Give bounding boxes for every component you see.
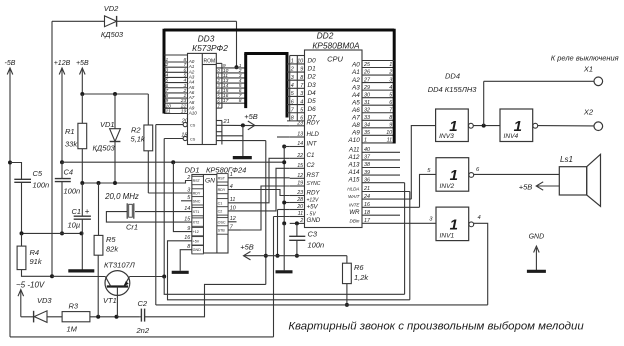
svg-text:INV3: INV3 bbox=[439, 133, 454, 140]
svg-text:11: 11 bbox=[387, 138, 393, 144]
svg-text:35: 35 bbox=[364, 130, 371, 136]
svg-text:A0: A0 bbox=[351, 62, 360, 69]
svg-text:100n: 100n bbox=[308, 241, 325, 250]
svg-text:A10: A10 bbox=[347, 137, 360, 144]
svg-text:3: 3 bbox=[187, 187, 190, 193]
svg-text:39: 39 bbox=[364, 170, 370, 176]
svg-text:VD1: VD1 bbox=[100, 120, 115, 129]
svg-text:INV2: INV2 bbox=[440, 183, 455, 190]
svg-text:+5V: +5V bbox=[307, 203, 319, 210]
svg-text:XT1: XT1 bbox=[193, 210, 200, 214]
svg-text:RDY: RDY bbox=[307, 189, 321, 196]
svg-text:DBin: DBin bbox=[350, 218, 360, 223]
svg-text:A2: A2 bbox=[351, 77, 360, 84]
svg-text:4: 4 bbox=[389, 85, 392, 91]
svg-text:3: 3 bbox=[166, 67, 169, 73]
svg-text:2: 2 bbox=[299, 218, 303, 224]
svg-text:16: 16 bbox=[364, 202, 370, 208]
svg-text:15: 15 bbox=[297, 163, 304, 169]
svg-text:18: 18 bbox=[364, 210, 370, 216]
svg-text:1M: 1M bbox=[67, 325, 78, 334]
svg-text:C3: C3 bbox=[308, 230, 318, 239]
svg-text:37: 37 bbox=[364, 155, 371, 161]
svg-text:A1: A1 bbox=[351, 69, 360, 76]
svg-text:22: 22 bbox=[180, 103, 187, 109]
svg-text:30: 30 bbox=[364, 92, 370, 98]
svg-text:D4: D4 bbox=[308, 90, 317, 97]
svg-text:R3: R3 bbox=[69, 302, 79, 311]
svg-text:+5В: +5В bbox=[244, 112, 258, 121]
svg-text:29: 29 bbox=[363, 85, 370, 91]
svg-text:+: + bbox=[85, 207, 90, 216]
svg-text:31: 31 bbox=[364, 100, 370, 106]
svg-text:КР580ГФ24: КР580ГФ24 bbox=[206, 166, 246, 175]
svg-text:10: 10 bbox=[230, 205, 236, 211]
svg-text:К реле выключения: К реле выключения bbox=[551, 54, 619, 63]
svg-text:5: 5 bbox=[166, 78, 169, 84]
svg-text:CS: CS bbox=[190, 138, 196, 142]
svg-text:13: 13 bbox=[297, 132, 303, 138]
svg-text:2: 2 bbox=[388, 70, 392, 76]
svg-text:1,2k: 1,2k bbox=[354, 273, 369, 282]
svg-text:CPU: CPU bbox=[327, 55, 343, 64]
svg-text:SNC: SNC bbox=[193, 199, 201, 203]
svg-text:RST: RST bbox=[218, 176, 226, 180]
svg-text:A10: A10 bbox=[188, 111, 198, 116]
svg-text:C1: C1 bbox=[72, 207, 82, 216]
svg-text:WR: WR bbox=[349, 209, 360, 216]
svg-text:D2: D2 bbox=[308, 74, 317, 81]
svg-text:3: 3 bbox=[389, 77, 392, 83]
svg-text:R4: R4 bbox=[30, 248, 40, 257]
svg-text:1: 1 bbox=[389, 62, 392, 68]
svg-text:23: 23 bbox=[180, 98, 187, 104]
svg-text:C2: C2 bbox=[307, 162, 315, 169]
svg-text:D0: D0 bbox=[308, 57, 317, 64]
svg-text:1: 1 bbox=[364, 138, 367, 144]
svg-text:1: 1 bbox=[230, 172, 233, 178]
svg-text:Квартирный звонок с произвольн: Квартирный звонок с произвольным выбором… bbox=[288, 321, 584, 333]
svg-text:7: 7 bbox=[183, 62, 186, 68]
svg-text:RDY: RDY bbox=[218, 188, 226, 192]
svg-text:RDY: RDY bbox=[193, 192, 201, 196]
svg-text:GN: GN bbox=[205, 178, 215, 185]
svg-text:27: 27 bbox=[363, 77, 371, 83]
svg-text:A13: A13 bbox=[347, 162, 360, 169]
svg-text:100n: 100n bbox=[64, 187, 81, 196]
svg-text:8: 8 bbox=[300, 75, 303, 81]
svg-text:2n2: 2n2 bbox=[136, 326, 150, 335]
svg-text:1: 1 bbox=[291, 59, 294, 65]
svg-text:2: 2 bbox=[182, 88, 186, 94]
svg-text:VD3: VD3 bbox=[37, 296, 52, 305]
svg-text:+5В: +5В bbox=[240, 243, 254, 252]
svg-text:11: 11 bbox=[298, 211, 304, 217]
svg-text:D1: D1 bbox=[308, 66, 317, 73]
svg-text:21: 21 bbox=[223, 119, 230, 125]
svg-text:Cr1: Cr1 bbox=[126, 222, 138, 231]
svg-text:A14: A14 bbox=[347, 169, 360, 176]
svg-text:10: 10 bbox=[386, 130, 392, 136]
svg-text:VT1: VT1 bbox=[103, 296, 117, 305]
svg-text:3: 3 bbox=[291, 75, 294, 81]
svg-text:19: 19 bbox=[181, 109, 187, 115]
svg-text:R5: R5 bbox=[106, 235, 116, 244]
svg-text:6: 6 bbox=[183, 67, 186, 73]
svg-text:3: 3 bbox=[183, 83, 186, 89]
svg-text:INT: INT bbox=[307, 140, 318, 147]
svg-text:КД503: КД503 bbox=[101, 30, 124, 39]
svg-text:RST: RST bbox=[193, 179, 201, 183]
svg-text:100n: 100n bbox=[33, 181, 50, 190]
svg-text:DD2: DD2 bbox=[317, 31, 334, 41]
svg-text:9: 9 bbox=[166, 98, 169, 104]
svg-text:36: 36 bbox=[364, 177, 370, 183]
svg-text:25: 25 bbox=[363, 62, 371, 68]
svg-text:2: 2 bbox=[186, 175, 190, 181]
svg-text:2: 2 bbox=[165, 62, 169, 68]
svg-text:17: 17 bbox=[223, 98, 229, 104]
svg-text:82k: 82k bbox=[106, 244, 119, 253]
svg-text:VD2: VD2 bbox=[104, 4, 119, 13]
svg-text:INV4: INV4 bbox=[504, 133, 519, 140]
svg-text:DD4: DD4 bbox=[445, 72, 460, 81]
svg-text:4: 4 bbox=[478, 215, 481, 221]
svg-text:C4: C4 bbox=[64, 168, 74, 177]
svg-text:К573РФ2: К573РФ2 bbox=[192, 43, 228, 53]
svg-text:8: 8 bbox=[291, 116, 294, 122]
svg-text:34: 34 bbox=[364, 123, 370, 129]
svg-text:A11: A11 bbox=[348, 146, 360, 153]
svg-text:A4: A4 bbox=[351, 92, 360, 99]
svg-text:+5В: +5В bbox=[76, 60, 89, 67]
svg-text:R2: R2 bbox=[131, 126, 141, 135]
svg-text:A3: A3 bbox=[351, 84, 360, 91]
svg-text:26: 26 bbox=[363, 70, 370, 76]
svg-text:22: 22 bbox=[296, 153, 303, 159]
svg-text:21: 21 bbox=[363, 186, 370, 192]
svg-text:GND: GND bbox=[307, 217, 321, 224]
svg-text:HLD: HLD bbox=[307, 131, 320, 138]
svg-text:9: 9 bbox=[300, 67, 303, 73]
svg-text:A15: A15 bbox=[347, 177, 360, 184]
svg-text:-5В: -5В bbox=[5, 60, 16, 67]
svg-text:5: 5 bbox=[183, 72, 186, 78]
svg-text:+12: +12 bbox=[193, 230, 199, 234]
svg-text:A9: A9 bbox=[351, 130, 360, 137]
svg-text:8: 8 bbox=[183, 57, 186, 63]
svg-text:4: 4 bbox=[183, 78, 186, 84]
svg-text:6: 6 bbox=[291, 99, 294, 105]
svg-text:C2: C2 bbox=[218, 209, 223, 213]
svg-text:12: 12 bbox=[297, 173, 303, 179]
svg-text:40: 40 bbox=[364, 147, 370, 153]
svg-text:8: 8 bbox=[166, 93, 169, 99]
svg-text:A5: A5 bbox=[351, 99, 360, 106]
svg-text:INTE: INTE bbox=[349, 202, 360, 207]
svg-text:RDY: RDY bbox=[307, 120, 321, 127]
svg-text:6: 6 bbox=[389, 100, 392, 106]
svg-text:~5 -10V: ~5 -10V bbox=[16, 281, 45, 290]
svg-text:INV1: INV1 bbox=[440, 232, 455, 239]
svg-text:20: 20 bbox=[296, 204, 303, 210]
svg-text:RST: RST bbox=[307, 172, 321, 179]
svg-text:D6: D6 bbox=[308, 106, 317, 113]
svg-text:20: 20 bbox=[181, 119, 189, 125]
svg-text:4: 4 bbox=[300, 99, 303, 105]
svg-text:ROM: ROM bbox=[203, 58, 215, 64]
svg-text:11: 11 bbox=[230, 197, 236, 203]
svg-text:C5: C5 bbox=[33, 169, 43, 178]
svg-text:10µ: 10µ bbox=[68, 221, 81, 230]
svg-text:R6: R6 bbox=[354, 263, 364, 272]
svg-text:19: 19 bbox=[297, 181, 303, 187]
svg-text:2: 2 bbox=[290, 67, 294, 73]
svg-text:C1: C1 bbox=[218, 201, 223, 205]
svg-text:3: 3 bbox=[300, 91, 303, 97]
svg-text:38: 38 bbox=[364, 162, 370, 168]
svg-text:10: 10 bbox=[297, 59, 303, 65]
svg-text:8: 8 bbox=[389, 115, 392, 121]
svg-text:КТ3107Л: КТ3107Л bbox=[104, 261, 136, 270]
svg-text:33k: 33k bbox=[65, 140, 78, 149]
svg-text:D5: D5 bbox=[308, 98, 317, 105]
svg-text:17: 17 bbox=[364, 218, 371, 224]
svg-text:WAIT: WAIT bbox=[348, 194, 361, 199]
svg-text:Ls1: Ls1 bbox=[560, 155, 573, 164]
svg-text:X2: X2 bbox=[583, 108, 594, 117]
svg-text:C2: C2 bbox=[138, 299, 148, 308]
svg-text:20,0 MHz: 20,0 MHz bbox=[104, 192, 139, 201]
svg-text:DD4 К155ЛН3: DD4 К155ЛН3 bbox=[428, 85, 478, 94]
svg-text:5,1k: 5,1k bbox=[131, 135, 146, 144]
svg-text:STB: STB bbox=[218, 229, 226, 233]
svg-text:A7: A7 bbox=[351, 114, 360, 121]
svg-text:A8: A8 bbox=[351, 122, 360, 129]
svg-text:CS: CS bbox=[190, 124, 196, 128]
svg-text:91k: 91k bbox=[30, 257, 43, 266]
svg-text:D3: D3 bbox=[308, 82, 317, 89]
svg-text:8: 8 bbox=[239, 98, 242, 104]
svg-text:24: 24 bbox=[363, 194, 370, 200]
svg-text:23: 23 bbox=[296, 190, 303, 196]
svg-text:7: 7 bbox=[166, 88, 169, 94]
svg-text:XT2: XT2 bbox=[193, 221, 200, 225]
svg-text:18: 18 bbox=[181, 132, 188, 138]
svg-text:КР580ВМ0А: КР580ВМ0А bbox=[312, 41, 360, 51]
svg-text:R1: R1 bbox=[65, 127, 75, 136]
svg-text:GND: GND bbox=[529, 234, 545, 241]
svg-text:11: 11 bbox=[166, 109, 171, 115]
svg-text:OSC: OSC bbox=[218, 220, 226, 224]
svg-text:4: 4 bbox=[230, 184, 233, 190]
svg-text:+5V: +5V bbox=[193, 239, 200, 243]
svg-text:GND: GND bbox=[193, 248, 202, 252]
svg-text:A12: A12 bbox=[347, 154, 360, 161]
svg-text:4: 4 bbox=[166, 72, 169, 78]
svg-text:HLDA: HLDA bbox=[347, 187, 359, 192]
svg-text:КД503: КД503 bbox=[93, 144, 116, 153]
svg-text:14: 14 bbox=[297, 141, 303, 147]
svg-text:1: 1 bbox=[450, 217, 458, 234]
svg-text:A6: A6 bbox=[351, 107, 360, 114]
svg-text:1: 1 bbox=[166, 57, 169, 63]
svg-text:1: 1 bbox=[183, 93, 186, 99]
svg-text:+5В: +5В bbox=[519, 183, 533, 192]
svg-text:4: 4 bbox=[291, 83, 294, 89]
svg-text:SYNC: SYNC bbox=[307, 181, 321, 187]
svg-text:+12В: +12В bbox=[54, 60, 71, 67]
svg-text:1: 1 bbox=[450, 167, 458, 184]
svg-text:10: 10 bbox=[166, 103, 172, 109]
svg-text:23: 23 bbox=[296, 121, 303, 127]
svg-text:9: 9 bbox=[389, 123, 392, 129]
svg-text:C1: C1 bbox=[307, 152, 315, 159]
svg-text:32: 32 bbox=[364, 107, 370, 113]
svg-text:33: 33 bbox=[364, 115, 370, 121]
svg-text:X1: X1 bbox=[583, 65, 593, 74]
svg-text:DD1: DD1 bbox=[185, 166, 200, 175]
svg-text:28: 28 bbox=[296, 197, 303, 203]
svg-text:6: 6 bbox=[166, 83, 169, 89]
